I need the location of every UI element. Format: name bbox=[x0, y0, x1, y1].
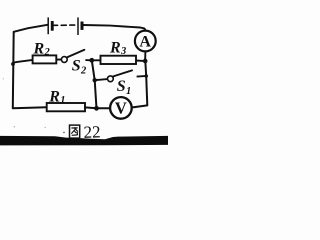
switch S2 blade bbox=[67, 50, 85, 58]
wire: S2 fixed contact stub bbox=[85, 59, 91, 61]
switch S1 pivot circle bbox=[108, 76, 114, 82]
svg-text:S2: S2 bbox=[72, 58, 87, 77]
wire: dashed link between battery cells bbox=[54, 24, 75, 26]
wire: top-left from corner to battery bbox=[14, 25, 48, 32]
node: junction right of S1 bbox=[144, 74, 148, 78]
wire: S1 fixed contact stub bbox=[137, 75, 145, 78]
voltmeter V1 circle bbox=[110, 97, 132, 119]
svg-text:V: V bbox=[115, 99, 127, 118]
node: junction on left wire at R2 branch bbox=[11, 62, 15, 66]
caption glyph: 图 (drawn) bbox=[70, 125, 80, 138]
wire: voltmeter to bottom-right corner bbox=[132, 105, 148, 107]
svg-text:S1: S1 bbox=[117, 78, 131, 97]
resistor R1 body bbox=[47, 103, 85, 111]
scan artifact: bottom black band bbox=[0, 136, 168, 146]
wire: right vertical bbox=[145, 59, 147, 106]
wire: battery to ammeter along top bbox=[84, 25, 146, 31]
battery cell 1 negative plate (short thick) bbox=[51, 21, 54, 31]
scan artifact: specks bbox=[63, 132, 65, 134]
battery cell 2 negative plate (short thick) bbox=[81, 22, 84, 30]
switch S1 blade bbox=[113, 70, 132, 76]
node: junction S1 left bbox=[93, 78, 97, 82]
resistor R3 body bbox=[101, 56, 137, 64]
svg-text:A: A bbox=[139, 34, 151, 51]
node: junction right of R3 bbox=[143, 59, 148, 64]
svg-text:R2: R2 bbox=[33, 41, 51, 59]
wire: R1 to voltmeter bbox=[85, 106, 110, 109]
wire: R2 left lead bbox=[13, 60, 32, 63]
wire: S1 left lead bbox=[95, 79, 108, 80]
wire: left vertical bbox=[12, 32, 15, 109]
wire: R3 right lead bbox=[136, 60, 144, 62]
wire: R2 right lead bbox=[56, 59, 61, 61]
battery cell 2 positive plate (long thin) bbox=[77, 17, 79, 35]
switch S2 pivot circle bbox=[61, 57, 67, 63]
node: junction top of middle vertical bbox=[89, 58, 94, 63]
node: junction bottom of middle vertical bbox=[94, 106, 99, 111]
svg-text:R1: R1 bbox=[48, 89, 65, 107]
battery cell 1 positive plate (long thin) bbox=[47, 17, 49, 34]
resistor R2 body bbox=[33, 55, 57, 63]
wire: ammeter bottom stub bbox=[144, 51, 146, 58]
wire: R3 left lead bbox=[94, 59, 101, 61]
wire: middle vertical bbox=[92, 60, 97, 108]
wire: bottom left lead to R1 bbox=[13, 107, 47, 108]
svg-text:R3: R3 bbox=[109, 39, 126, 57]
ammeter A1 circle bbox=[135, 31, 156, 52]
